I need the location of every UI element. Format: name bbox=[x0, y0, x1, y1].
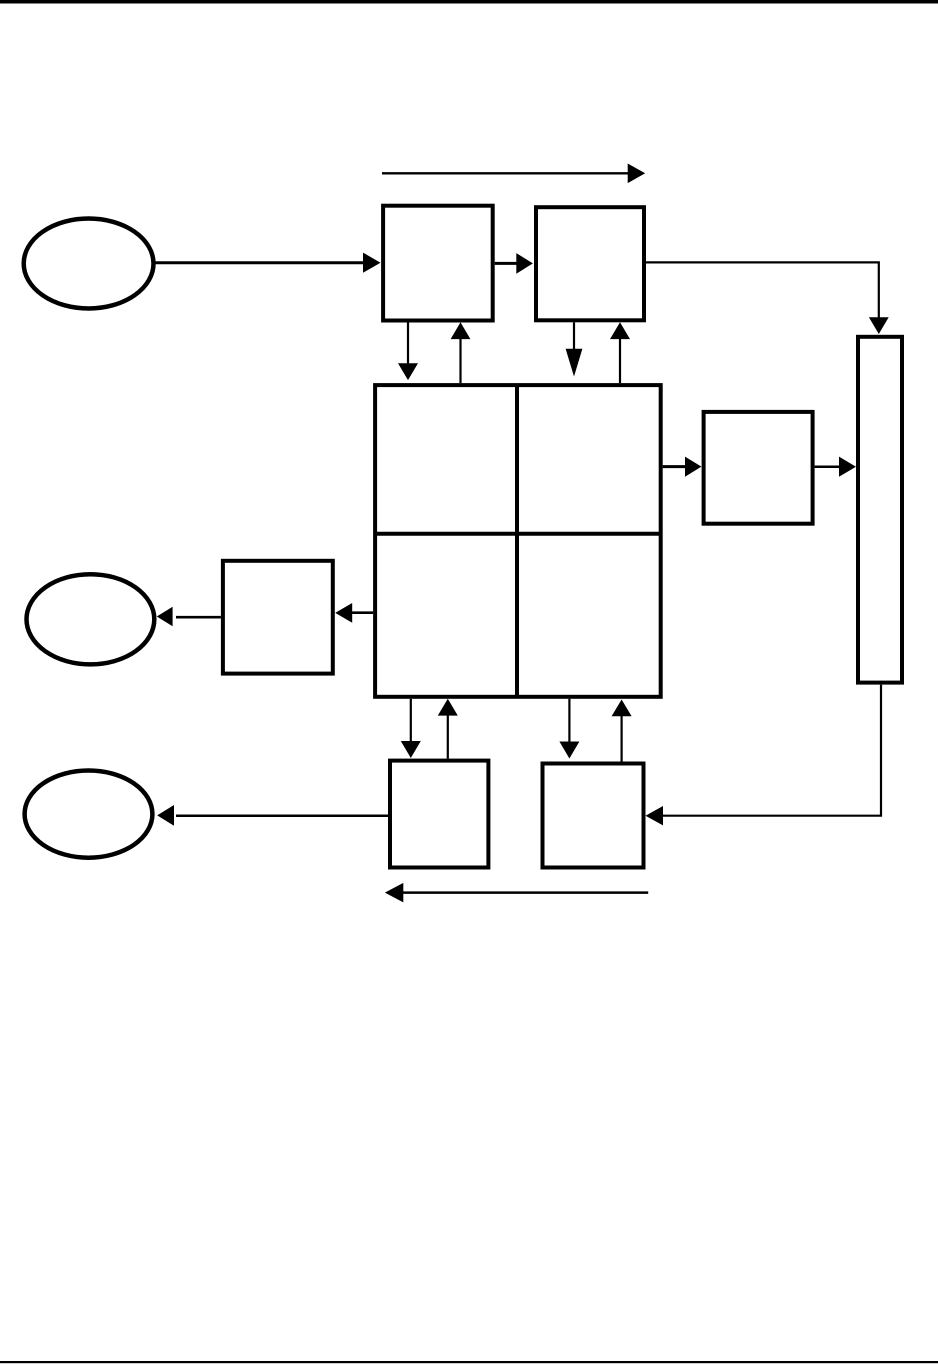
box B bbox=[536, 207, 644, 320]
wire box A down to matrix bbox=[398, 323, 418, 381]
ellipse E2 bbox=[27, 574, 155, 664]
wire box B to tall bar bbox=[646, 262, 889, 334]
wire box B down to matrix bbox=[566, 322, 583, 376]
box L bbox=[223, 561, 333, 674]
wire tall bar down to box D bbox=[646, 685, 882, 826]
box D bbox=[543, 764, 644, 868]
footer rule bbox=[0, 1361, 938, 1363]
box C bbox=[390, 761, 488, 868]
bottom flow arrow bbox=[385, 883, 648, 903]
wire E1 to box A bbox=[155, 253, 381, 273]
header rule bbox=[0, 0, 938, 4]
top flow arrow bbox=[382, 164, 645, 184]
ellipse E1 bbox=[24, 219, 154, 309]
wire box L to ellipse E2 bbox=[157, 607, 221, 627]
wire matrix to box R bbox=[663, 457, 702, 477]
matrix 2x2 grid bbox=[375, 385, 661, 697]
wire box C up to matrix bbox=[438, 699, 458, 759]
ellipse E3 bbox=[25, 771, 153, 858]
tall bar bbox=[858, 337, 902, 683]
wire matrix up to box A bbox=[451, 322, 471, 383]
wire box C to ellipse E3 bbox=[157, 805, 388, 826]
box A bbox=[383, 206, 493, 321]
wire matrix down to box C bbox=[401, 699, 421, 758]
wire matrix up to box B bbox=[610, 322, 630, 383]
box R bbox=[704, 412, 813, 524]
wire matrix to box L bbox=[335, 603, 373, 623]
wire box A to box B bbox=[495, 253, 533, 274]
wire box D up to matrix bbox=[612, 700, 632, 762]
wire matrix down to box D bbox=[559, 699, 579, 759]
wire box R to tall bar bbox=[815, 457, 856, 477]
